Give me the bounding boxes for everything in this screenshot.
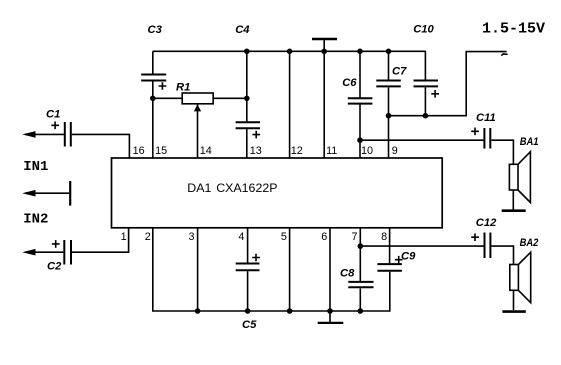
svg-text:BA1: BA1 <box>520 136 539 148</box>
svg-text:9: 9 <box>392 145 398 157</box>
svg-text:C12: C12 <box>476 217 497 229</box>
svg-text:C4: C4 <box>235 24 250 36</box>
svg-text:BA2: BA2 <box>520 237 539 249</box>
svg-text:R1: R1 <box>176 81 190 93</box>
svg-text:4: 4 <box>238 231 244 243</box>
svg-text:C8: C8 <box>340 268 355 280</box>
svg-text:C2: C2 <box>47 261 62 273</box>
svg-text:C6: C6 <box>342 77 357 89</box>
svg-text:1: 1 <box>121 231 127 243</box>
svg-text:12: 12 <box>291 145 303 157</box>
svg-text:2: 2 <box>145 231 151 243</box>
svg-text:11: 11 <box>326 145 337 157</box>
svg-text:IN1: IN1 <box>23 159 48 175</box>
svg-text:8: 8 <box>381 231 387 243</box>
svg-text:C1: C1 <box>46 108 60 120</box>
svg-text:C11: C11 <box>476 112 496 124</box>
svg-text:1.5-15V: 1.5-15V <box>482 21 545 38</box>
svg-text:14: 14 <box>200 145 212 157</box>
svg-text:10: 10 <box>361 145 373 157</box>
svg-text:15: 15 <box>155 145 167 157</box>
svg-text:5: 5 <box>281 231 287 243</box>
svg-text:6: 6 <box>321 231 327 243</box>
svg-text:C9: C9 <box>401 251 416 263</box>
svg-text:16: 16 <box>133 145 145 157</box>
svg-text:IN2: IN2 <box>23 211 48 227</box>
svg-text:7: 7 <box>351 231 357 243</box>
svg-text:C5: C5 <box>242 319 257 331</box>
svg-text:C3: C3 <box>148 24 163 36</box>
svg-text:13: 13 <box>250 145 262 157</box>
svg-text:C10: C10 <box>413 23 434 35</box>
svg-text:3: 3 <box>188 231 194 243</box>
svg-text:CXA1622P: CXA1622P <box>216 181 277 195</box>
svg-text:DA1: DA1 <box>187 181 211 195</box>
svg-text:C7: C7 <box>392 66 407 78</box>
